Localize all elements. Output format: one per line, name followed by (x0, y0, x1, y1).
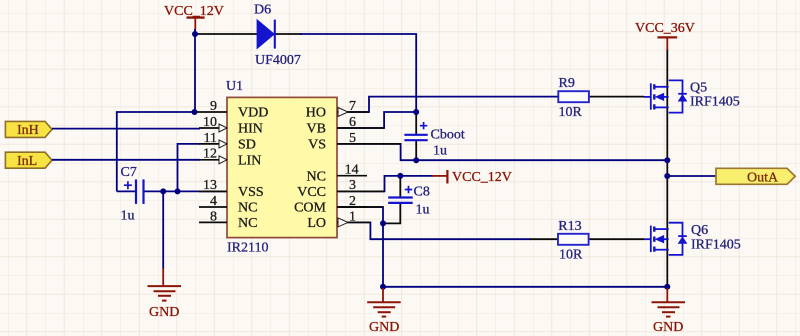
wire SD tie to VSS net (178, 144, 201, 192)
svg-text:HIN: HIN (238, 122, 263, 137)
svg-text:Cboot: Cboot (431, 128, 465, 143)
svg-text:LIN: LIN (238, 153, 261, 168)
node junction OutA tap (664, 173, 670, 179)
transistor Q5 IRF1405 N-MOSFET (644, 80, 740, 112)
U1 pin 4 NC (199, 194, 257, 216)
U1 pin 7 HO (306, 99, 369, 121)
svg-text:OutA: OutA (747, 170, 779, 185)
wire VS pin 5 to output node (337, 144, 667, 160)
svg-text:6: 6 (349, 115, 356, 130)
wire C8 top lead (399, 176, 401, 197)
port InH (5, 121, 52, 138)
wire C8 bottom lead (382, 204, 400, 224)
svg-text:10: 10 (203, 115, 217, 130)
wire D6 cathode to VB/Cboot vertical (300, 34, 416, 111)
svg-text:IR2110: IR2110 (227, 241, 268, 256)
svg-text:10R: 10R (559, 248, 583, 263)
svg-text:VCC: VCC (297, 185, 326, 200)
U1 pin 8 NC (199, 209, 257, 231)
wire InL to LIN (52, 159, 200, 161)
IC U1 IR2110 body (226, 79, 337, 256)
port InL (5, 152, 52, 169)
svg-text:C8: C8 (414, 185, 430, 200)
svg-text:9: 9 (210, 99, 217, 114)
svg-text:VS: VS (308, 138, 326, 153)
transistor Q6 IRF1405 N-MOSFET (644, 223, 741, 255)
wire C7/VSS rail (117, 190, 135, 192)
U1 pin 13 VSS (199, 178, 264, 200)
wire left GND drop (162, 191, 164, 269)
capacitor C8 1u (388, 185, 430, 218)
svg-text:HO: HO (306, 106, 326, 121)
svg-text:SD: SD (238, 138, 256, 153)
U1 pin 2 COM (294, 194, 367, 216)
U1 pin 9 VDD (196, 99, 268, 121)
svg-text:4: 4 (210, 194, 217, 209)
svg-text:GND: GND (369, 320, 399, 335)
U1 pin 1 LO (307, 209, 370, 231)
U1 pin 3 VCC (297, 178, 384, 200)
svg-text:12: 12 (203, 147, 217, 162)
node junction ground rail left (380, 284, 386, 290)
wire HO pin 7 riser (337, 97, 559, 112)
wire R9 to Q5 gate (589, 96, 645, 98)
U1 pin 5 VS (308, 131, 401, 153)
svg-text:14: 14 (345, 163, 359, 178)
svg-text:1u: 1u (121, 209, 135, 224)
svg-text:R9: R9 (559, 76, 575, 91)
node junction ground rail right (664, 284, 670, 290)
node junction VCC pin3 / C8 (397, 173, 403, 179)
svg-text:13: 13 (203, 178, 217, 193)
svg-text:Q6: Q6 (691, 223, 708, 238)
wire ground rail bottom (383, 286, 667, 288)
svg-text:7: 7 (349, 99, 356, 114)
svg-text:VDD: VDD (238, 106, 268, 121)
node junction C7 to GND (160, 188, 166, 194)
U1 pin 14 NC (307, 163, 367, 185)
svg-text:NC: NC (238, 201, 257, 216)
wire VCC pin 3 riser (337, 176, 433, 192)
U1 pin 12 LIN (199, 147, 261, 169)
power port VCC_12V top (164, 4, 224, 30)
U1 pin 6 VB (307, 115, 385, 137)
power port VCC_36V (635, 21, 695, 50)
svg-text:C7: C7 (121, 165, 137, 180)
U1 pin 11 SD (199, 131, 256, 153)
svg-text:11: 11 (204, 131, 217, 146)
wire VCC_12V to VDD pin 9 (194, 29, 196, 112)
svg-text:10R: 10R (559, 105, 583, 120)
wire R13 to Q6 gate (589, 238, 645, 240)
svg-text:D6: D6 (254, 3, 271, 18)
node junction VB bootstrap (413, 109, 419, 115)
wire COM pin 2 down to ground rail (337, 207, 383, 287)
svg-text:InL: InL (17, 154, 37, 169)
node junction C8 bottom / COM (380, 220, 386, 226)
resistor R13 10R (558, 219, 589, 263)
wire InH to HIN (52, 128, 200, 130)
svg-text:IRF1405: IRF1405 (690, 95, 740, 110)
ground symbol right GND (652, 288, 686, 335)
svg-text:NC: NC (307, 169, 326, 184)
svg-text:VCC_36V: VCC_36V (635, 21, 695, 36)
node junction VCC_12V top rail (192, 31, 198, 37)
wire Cboot top lead (415, 111, 417, 134)
wire into R13 left (530, 238, 559, 240)
capacitor C7 1u (121, 165, 144, 224)
svg-text:U1: U1 (226, 79, 243, 94)
port OutA (716, 168, 795, 185)
diode D6 UF4007 (254, 3, 301, 69)
capacitor Cboot 1u (404, 122, 464, 159)
ground symbol left GND (148, 268, 182, 320)
svg-text:VCC_12V: VCC_12V (452, 170, 512, 185)
resistor R9 10R (558, 76, 589, 120)
U1 pin 10 HIN (199, 115, 263, 137)
svg-text:3: 3 (349, 178, 356, 193)
svg-text:InH: InH (17, 123, 39, 138)
svg-text:VB: VB (307, 122, 326, 137)
wire output node to OutA port (667, 175, 716, 177)
wire LO pin 1 to R13 (337, 222, 531, 239)
svg-text:LO: LO (307, 216, 326, 231)
node junction Cboot bottom on VS line (413, 157, 419, 163)
svg-text:1u: 1u (416, 203, 430, 218)
svg-text:1u: 1u (433, 144, 447, 159)
svg-text:GND: GND (149, 305, 179, 320)
node junction SD tie (175, 188, 181, 194)
svg-text:GND: GND (653, 320, 683, 335)
svg-text:Q5: Q5 (690, 81, 707, 96)
ground symbol middle GND (367, 288, 401, 335)
svg-text:IRF1405: IRF1405 (691, 238, 741, 253)
svg-text:2: 2 (349, 194, 356, 209)
svg-text:R13: R13 (558, 219, 581, 234)
wire VDD rail to C7 (117, 112, 196, 191)
wire D6 anode rail (195, 33, 302, 35)
svg-text:UF4007: UF4007 (255, 53, 301, 68)
svg-text:VSS: VSS (238, 185, 264, 200)
svg-text:5: 5 (349, 131, 356, 146)
wire Cboot bottom lead (415, 141, 417, 161)
svg-text:COM: COM (294, 201, 326, 216)
svg-text:NC: NC (238, 216, 257, 231)
svg-text:1: 1 (349, 209, 356, 224)
wire VB pin 6 to bootstrap node (337, 112, 417, 128)
node junction at VDD pin 9 (192, 109, 198, 115)
svg-text:8: 8 (210, 209, 217, 224)
node junction VS at power stage (664, 157, 670, 163)
power port VCC_12V middle (432, 170, 512, 185)
wire VCC_36V down through Q5 and Q6 (666, 49, 668, 287)
